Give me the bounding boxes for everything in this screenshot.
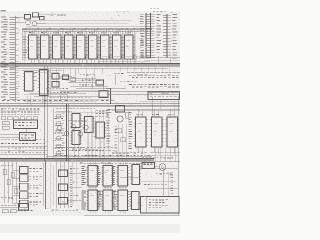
buffer U28 [150, 114, 164, 147]
control bus labels [2, 99, 114, 102]
counter U23 [70, 131, 81, 145]
net name column [157, 14, 162, 53]
transistor cluster Q2-Q6 [56, 121, 88, 140]
DRAM U8 [87, 31, 99, 59]
horizontal net y94 [108, 93, 180, 95]
connector J1 right stubs [15, 17, 24, 100]
sheet bottom rule [84, 214, 180, 216]
resistor R3 [2, 122, 9, 125]
driver U35 [96, 163, 114, 186]
DRAM U3 [27, 31, 39, 59]
inter-IC column wires [30, 29, 136, 63]
resistor R9 [126, 112, 129, 118]
DRAM U10 [111, 31, 123, 59]
data bus run [0, 63, 180, 68]
pin label column for RAM block [129, 112, 133, 149]
mid-right riser wires [115, 124, 127, 162]
header left label column [141, 31, 145, 57]
lower data bus run [0, 157, 180, 162]
connector circle P2 [159, 164, 166, 171]
relay driver K5 [13, 200, 42, 207]
bus riser wires left [22, 29, 26, 62]
gate U2c [32, 21, 37, 26]
gate U15 [52, 82, 59, 88]
pre-bus label rows [24, 88, 108, 101]
middle riser wires [87, 110, 108, 158]
top corner mark [150, 8, 166, 12]
relay driver K3 [13, 183, 42, 190]
bypass capacitor C3 [62, 56, 65, 60]
DRAM U6 [63, 31, 75, 59]
top faint rules [30, 20, 132, 23]
data bus junctions [8, 64, 163, 65]
timing logic labels [79, 74, 95, 85]
inverter U16 [63, 75, 69, 80]
bus drop wires [31, 29, 131, 35]
driver U37 [81, 187, 99, 210]
bypass capacitor C6 [98, 56, 101, 60]
top margin note right [116, 11, 118, 14]
riser wire x50 [49, 67, 51, 104]
U13 labels [35, 72, 38, 81]
net list band 1 [120, 67, 180, 78]
discrete row R5-R8 [0, 139, 47, 155]
scanner shadow band [0, 224, 180, 233]
left wiring to PAL [0, 129, 26, 138]
gate U31 [59, 170, 68, 177]
buffer U1 [25, 15, 31, 20]
DRAM row left pin labels [23, 37, 27, 59]
central vertical bus [45, 66, 68, 161]
right bus top run [108, 109, 180, 111]
header area lower joins [98, 56, 180, 63]
mux U24 [83, 117, 95, 133]
right bus feeders [140, 100, 180, 111]
center bottom vertical wires [56, 162, 68, 208]
sheet number top-left [1, 10, 7, 11]
DRAM U5 [51, 31, 63, 59]
driver U41 [130, 192, 141, 210]
DRAM U4 [39, 31, 51, 59]
buffer U29 [165, 114, 179, 147]
vcc label [114, 72, 123, 75]
driver U36 [111, 163, 129, 186]
right edge vertical net [177, 96, 179, 215]
horizontal net y91 [60, 90, 180, 92]
top bus cross hatch [23, 28, 147, 32]
latch U12 [23, 72, 35, 92]
title text Tandon [47, 14, 66, 17]
bypass capacitor C2 [50, 56, 53, 60]
comparator U26 [116, 106, 125, 113]
gate U17 [96, 80, 104, 85]
pullup resistor RP1 [40, 17, 45, 20]
bottom grid header band [80, 162, 156, 165]
ALU U25 [94, 122, 106, 138]
scanned drawing area tint [0, 11, 180, 216]
left lower connector stubs [15, 70, 19, 98]
bottom left misc parts [2, 210, 33, 213]
net list band 2 [120, 81, 179, 87]
resistor R4 [2, 126, 9, 129]
note box right [148, 92, 180, 100]
DRAM U11 [123, 31, 135, 59]
bottom left vertical wires [5, 162, 17, 203]
RAM block drop wires [139, 109, 175, 154]
bottom center risers [51, 163, 73, 209]
lower bus junctions [6, 160, 151, 161]
wires under P2 [163, 171, 173, 197]
relay driver K1 [13, 167, 42, 174]
register file label block [96, 110, 109, 116]
address bus upper run [22, 26, 152, 31]
driver U34 [81, 163, 99, 186]
signal name band lower [56, 147, 150, 156]
DRAM row lower pin drops [31, 59, 131, 65]
flip-flop U18 [99, 91, 108, 98]
connector J4 bottom [0, 204, 29, 211]
right edge pin labels [173, 14, 178, 58]
buffer U21 [20, 133, 36, 141]
driver U38 [96, 187, 114, 210]
paper sheet background [0, 0, 180, 238]
bottom center link wires [52, 162, 82, 211]
bypass capacitor C4 [74, 56, 77, 60]
bus junction dots [25, 28, 146, 29]
title block text [149, 200, 168, 209]
latch output drops [24, 94, 60, 103]
mid discrete components column [55, 113, 65, 156]
mid band labels under bus [55, 108, 112, 112]
control bus run [0, 104, 180, 107]
bypass capacitor C7 [110, 56, 113, 60]
octal driver U40 [130, 165, 141, 185]
bypass capacitor C9 [134, 56, 137, 60]
gate U33 [59, 198, 68, 205]
oscillator wiring [48, 69, 76, 77]
title block border [141, 197, 180, 214]
header J2 [140, 13, 154, 58]
driver U39 [111, 187, 129, 210]
bypass capacitor C1 [38, 56, 41, 60]
scan speckle marks [0, 12, 180, 213]
bottom right wires [120, 148, 180, 197]
input cluster wires [37, 15, 56, 24]
crystal Y1 [71, 78, 76, 82]
bottom left column bus [44, 160, 46, 209]
header J3 [163, 14, 171, 58]
bottom grid link wires [90, 162, 132, 214]
gate U32 [59, 184, 68, 191]
jumper option table W1 [0, 109, 40, 120]
DRAM U7 [75, 31, 87, 59]
transistor Q1 [117, 116, 123, 122]
shift register U22 [70, 114, 81, 128]
buffer U2 [33, 13, 39, 17]
scan noise texture [0, 11, 180, 216]
pin name column mid [107, 110, 111, 147]
edge connector J1 [1, 16, 15, 102]
gate U14 [52, 74, 59, 80]
middle block link wires [54, 108, 105, 158]
gate U2b [26, 20, 31, 25]
timing net segments [20, 68, 152, 117]
clock divider wires [68, 77, 110, 91]
PAL U20 [14, 120, 38, 129]
filter block FL1 [142, 163, 155, 169]
bypass capacitor C8 [122, 56, 125, 60]
control bus junctions [6, 105, 172, 106]
bypass capacitor C5 [86, 56, 89, 60]
decoder U13 [38, 70, 50, 96]
DRAM U9 [99, 31, 111, 59]
relay driver K4 [13, 192, 42, 199]
series resistors bottom left [1, 165, 18, 198]
buffer U27 [134, 114, 148, 147]
lower bus cross hatch [55, 158, 150, 162]
relay driver K2 [13, 175, 43, 182]
